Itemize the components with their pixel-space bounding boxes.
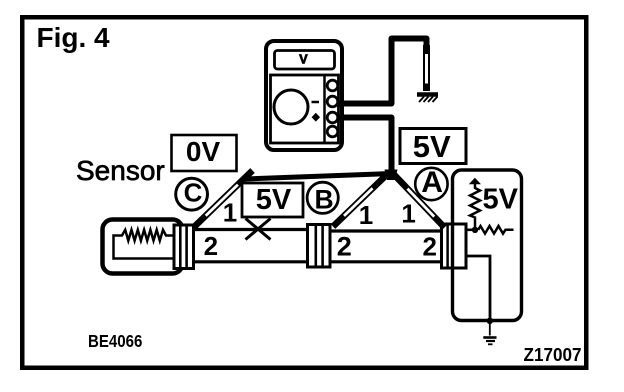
voltmeter terminal 4	[327, 126, 338, 137]
wire from junction to probe C	[244, 174, 391, 180]
voltmeter terminal 1	[327, 80, 338, 91]
test probe at A	[393, 174, 445, 228]
svg-text:2: 2	[422, 232, 436, 262]
svg-text:2: 2	[204, 231, 218, 261]
connector at sensor (C)	[174, 225, 194, 269]
node A	[415, 166, 447, 200]
svg-text:V: V	[299, 53, 308, 67]
wire harness pin-2 line (sensor to middle connector)	[194, 260, 308, 263]
junction at ECU bottom edge	[487, 318, 493, 324]
voltmeter body	[266, 41, 342, 150]
wire harness pin-1 line (sensor to middle connector)	[194, 228, 308, 231]
resistor (pull-up) vertical	[470, 188, 480, 230]
svg-text:C: C	[184, 178, 203, 208]
test probe at B	[333, 174, 388, 227]
connector at ECU (A)	[442, 224, 467, 268]
voltmeter display (V)	[275, 51, 335, 70]
voltmeter terminal 3 (positive)	[327, 112, 338, 123]
svg-text:1: 1	[223, 198, 237, 228]
minus marker	[312, 101, 320, 104]
junction: positive lead splits to probes	[385, 170, 398, 181]
voltmeter terminal 2 (negative)	[327, 96, 338, 107]
voltmeter panel	[271, 75, 339, 143]
svg-text:5V: 5V	[413, 129, 451, 164]
node C	[176, 178, 208, 211]
ECU box	[453, 170, 522, 321]
svg-text:0V: 0V	[186, 136, 221, 167]
resistor (series) horizontal	[478, 226, 513, 234]
test probe (negative lead, to body ground)	[423, 45, 430, 91]
plus diamond marker	[312, 113, 320, 122]
value label 5V at B	[242, 183, 303, 217]
svg-text:2: 2	[337, 232, 352, 262]
svg-text:A: A	[421, 166, 443, 199]
svg-text:Z17007: Z17007	[524, 344, 582, 365]
svg-text:1: 1	[401, 199, 415, 229]
voltmeter terminal separator	[323, 76, 326, 142]
test probe at C	[194, 171, 253, 228]
svg-text:Fig. 4: Fig. 4	[37, 22, 111, 53]
wire: ECU pin 1 to node	[465, 229, 472, 232]
svg-text:5V: 5V	[256, 184, 292, 216]
svg-text:5V: 5V	[483, 184, 519, 216]
wire harness pin-1 line (middle connector to ECU)	[331, 229, 446, 232]
wire: positive lead from terminal 3 down to junction	[337, 118, 392, 172]
junction: resistor node	[472, 227, 478, 233]
body ground under probe	[417, 95, 438, 103]
value label 0V at C	[172, 135, 237, 171]
wire harness pin-2 line (middle connector to ECU)	[331, 260, 446, 263]
wire: ECU pin 2 to ground	[465, 256, 490, 319]
resistor inside sensor	[114, 230, 174, 259]
svg-text:Sensor: Sensor	[76, 155, 165, 186]
svg-text:B: B	[315, 184, 334, 214]
svg-text:BE4066: BE4066	[88, 332, 142, 351]
voltmeter dial	[274, 90, 308, 124]
connector (middle, B)	[308, 225, 331, 268]
svg-text:1: 1	[359, 200, 373, 230]
value label 5V at A	[400, 129, 466, 165]
open-circuit X mark	[246, 219, 271, 240]
ground (body ground)	[483, 322, 496, 344]
node B	[307, 182, 338, 214]
sensor body	[103, 220, 183, 274]
wire: negative lead from terminal 2 to ground probe	[337, 39, 427, 104]
5V supply arrow	[469, 178, 481, 189]
